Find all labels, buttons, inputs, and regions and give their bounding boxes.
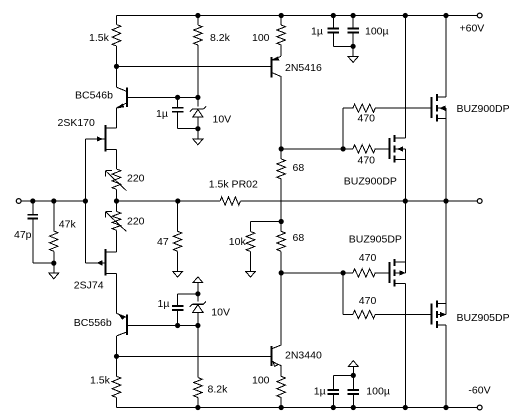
node bottom rail / 8.2k	[196, 405, 200, 409]
resistor 470 lower-2	[353, 310, 432, 318]
wire output rail left	[117, 200, 221, 202]
svg-text:100µ: 100µ	[365, 26, 389, 38]
svg-text:BUZ905DP: BUZ905DP	[457, 312, 510, 324]
svg-text:68: 68	[293, 162, 305, 174]
terminal output	[477, 199, 482, 204]
node input / gate line	[83, 199, 87, 203]
resistor 68 upper	[277, 149, 286, 201]
label 8.2k top	[210, 32, 231, 44]
resistor 8.2k bottom	[194, 326, 203, 408]
node 68 chain / 10k	[279, 219, 283, 223]
svg-text:2SJ74: 2SJ74	[74, 280, 104, 292]
resistor 1.5k top	[112, 16, 121, 67]
node output / BUZ900 source outer	[444, 199, 448, 203]
capacitor 1µ top	[328, 16, 339, 47]
wire upper rail y66	[117, 65, 272, 67]
svg-text:68: 68	[293, 232, 305, 244]
ground above zener lower	[193, 277, 203, 294]
svg-text:47k: 47k	[59, 219, 77, 231]
mosfet BUZ905DP inner	[390, 201, 406, 408]
wire 10k top link	[251, 221, 282, 223]
ground above 100µ lower	[348, 361, 358, 376]
svg-text:100: 100	[252, 375, 270, 387]
label 220 upper	[127, 173, 145, 185]
label 47	[157, 236, 169, 248]
resistor 100 bottom	[277, 376, 286, 407]
svg-text:47: 47	[157, 236, 169, 248]
wire lower rail y356	[117, 355, 272, 357]
svg-text:220: 220	[127, 173, 145, 185]
node input / 47k	[52, 199, 56, 203]
svg-text:1.5k: 1.5k	[90, 375, 111, 387]
svg-text:BUZ900DP: BUZ900DP	[457, 103, 510, 115]
label 1µ bias lower	[158, 298, 170, 310]
node VAS lower / 68	[279, 271, 283, 275]
ground below 10k	[246, 271, 256, 277]
capacitor 1µ bias upper	[172, 97, 198, 128]
node output / 47	[176, 199, 180, 203]
svg-text:100: 100	[252, 32, 270, 44]
svg-text:2N3440: 2N3440	[285, 350, 322, 362]
node bottom rail / 1µ	[331, 405, 335, 409]
resistor 1.5k PR02	[220, 197, 241, 205]
label BUZ900DP outer	[457, 103, 510, 115]
node decoupling junction lower	[351, 373, 355, 377]
label 220 lower	[127, 216, 145, 228]
label 2SK170	[58, 117, 96, 129]
wire 470 junction dropper	[343, 273, 353, 315]
resistor 10k	[246, 222, 255, 272]
label BC546b	[75, 90, 113, 102]
node input / 47p	[31, 199, 35, 203]
label 68 upper	[293, 162, 305, 174]
node base / zener	[196, 95, 200, 99]
wire BC546b base rail	[127, 96, 198, 98]
zener 10V lower	[190, 294, 206, 326]
resistor 8.2k top	[194, 16, 203, 98]
capacitor 100µ bottom	[348, 375, 359, 407]
node zener/cap junction upper	[196, 127, 200, 131]
node decoupling junction	[351, 44, 355, 48]
wire BC556b base rail	[127, 325, 198, 327]
label 2N3440	[285, 350, 322, 362]
mosfet BUZ900DP inner	[390, 16, 406, 202]
transistor BC546b	[117, 66, 127, 128]
resistor 100 top	[277, 16, 286, 57]
mosfet BUZ905DP outer	[432, 201, 446, 408]
capacitor 100µ top	[347, 16, 358, 47]
node output / BUZ900 source inner	[403, 199, 407, 203]
svg-text:1.5k PR02: 1.5k PR02	[209, 179, 258, 191]
transistor BC556b	[117, 313, 127, 356]
label BC556b	[74, 317, 112, 329]
resistor 470 upper-1	[353, 104, 432, 112]
svg-text:BUZ905DP: BUZ905DP	[349, 234, 402, 246]
node top rail / 8.2k	[196, 13, 200, 17]
svg-text:8.2k: 8.2k	[210, 32, 231, 44]
ground below 47	[173, 271, 183, 277]
label 10V lower	[211, 307, 230, 319]
label 1.5k top	[89, 32, 110, 44]
svg-text:1µ: 1µ	[314, 386, 326, 398]
label 1.5k PR02	[209, 179, 258, 191]
label 10V upper	[213, 114, 232, 126]
svg-text:470: 470	[358, 113, 376, 125]
svg-text:BUZ900DP: BUZ900DP	[344, 176, 397, 188]
label 47p	[14, 229, 32, 241]
mosfet BUZ900DP outer	[432, 16, 446, 202]
label 8.2k bottom	[208, 384, 229, 396]
label 100µ bottom	[366, 386, 390, 398]
wire input rail	[21, 200, 85, 202]
label 1µ top	[311, 26, 323, 38]
resistor 470 lower-1	[343, 269, 389, 277]
svg-text:10k: 10k	[229, 236, 247, 248]
svg-text:1µ: 1µ	[156, 108, 168, 120]
terminal -60V	[477, 405, 482, 410]
node bottom rail / 100µ	[351, 405, 355, 409]
label 47k	[59, 219, 77, 231]
svg-text:470: 470	[359, 295, 377, 307]
label 100 top	[252, 32, 270, 44]
resistor 470 upper-2	[343, 145, 389, 153]
node trimmer midpoint / output rail	[114, 199, 118, 203]
node base / 1µ	[176, 95, 180, 99]
wire trimmer chain	[116, 189, 118, 211]
node top rail / 100	[279, 13, 283, 17]
ground below 47k	[49, 263, 59, 279]
svg-text:2SK170: 2SK170	[58, 117, 96, 129]
label 68 lower	[293, 232, 305, 244]
node VAS upper / 68	[279, 147, 283, 151]
wire junction to 1µ lower	[178, 293, 198, 295]
node 1.5k / BC546b collector	[114, 64, 118, 68]
node base / zener lower	[196, 323, 200, 327]
svg-text:+60V: +60V	[460, 23, 485, 35]
transistor 2N3440	[272, 273, 282, 376]
label 470 lower-1	[359, 252, 377, 264]
capacitor 1µ bias lower	[172, 294, 183, 326]
ground below 100µ	[348, 46, 358, 62]
label -60V	[468, 384, 490, 396]
svg-text:1.5k: 1.5k	[89, 32, 110, 44]
wire 1µ to 100µ link	[333, 45, 353, 47]
label 1µ bias upper	[156, 108, 168, 120]
label 2N5416	[285, 62, 322, 74]
trimmer 220 upper	[106, 169, 127, 191]
resistor 47k	[50, 201, 59, 263]
wire VAS lower to 470 junction	[281, 272, 343, 274]
svg-text:1µ: 1µ	[311, 26, 323, 38]
svg-text:470: 470	[358, 155, 376, 167]
label 470 lower-2	[359, 295, 377, 307]
jfet 2SK170	[85, 125, 116, 201]
node 470 junction lower	[341, 271, 345, 275]
node zener/cap junction lower	[196, 292, 200, 296]
node BC556b collector / 1.5k	[114, 354, 118, 358]
wire output rail right	[241, 200, 478, 202]
wire 470 junction riser	[343, 108, 353, 149]
capacitor 1µ bottom	[328, 375, 339, 407]
zener 10V upper	[190, 97, 206, 128]
label 2SJ74	[74, 280, 104, 292]
node top rail / 1µ	[331, 13, 335, 17]
svg-text:BC546b: BC546b	[75, 90, 113, 102]
transistor 2N5416	[272, 56, 282, 149]
label BUZ905DP outer	[457, 312, 510, 324]
svg-text:2N5416: 2N5416	[285, 62, 322, 74]
svg-text:BC556b: BC556b	[74, 317, 112, 329]
svg-text:-60V: -60V	[468, 384, 490, 396]
node top rail / BUZ900DP drain	[403, 13, 407, 17]
label 1µ bottom	[314, 386, 326, 398]
label 470 upper-2	[358, 155, 376, 167]
node bottom rail / 100	[279, 405, 283, 409]
svg-text:220: 220	[127, 216, 145, 228]
label BUZ905DP inner	[349, 234, 402, 246]
svg-text:10V: 10V	[211, 307, 230, 319]
svg-text:47p: 47p	[14, 229, 32, 241]
terminal +60V	[477, 13, 482, 18]
wire -60V supply rail	[117, 407, 478, 409]
trimmer 220 lower	[106, 211, 127, 231]
svg-text:1µ: 1µ	[158, 298, 170, 310]
label 100µ top	[365, 26, 389, 38]
node base / 1µ lower	[176, 323, 180, 327]
ground below zener upper	[193, 129, 203, 145]
node top rail / 100µ	[351, 13, 355, 17]
svg-text:100µ: 100µ	[366, 386, 390, 398]
node top rail / BUZ900DP drain 2	[444, 13, 448, 17]
wire VAS to 470 junction	[281, 148, 343, 150]
resistor 1.5k bottom	[112, 356, 121, 407]
wire 1µ to 100µ link lower	[333, 374, 353, 376]
capacitor 47p	[28, 201, 54, 263]
label 470 upper-1	[358, 113, 376, 125]
label 1.5k bottom	[90, 375, 111, 387]
node 47k/47p junction	[52, 261, 56, 265]
svg-text:10V: 10V	[213, 114, 232, 126]
label +60V	[460, 23, 485, 35]
jfet 2SJ74	[85, 201, 116, 313]
label 10k	[229, 236, 247, 248]
node bottom rail / BUZ905DP drain inner	[403, 405, 407, 409]
resistor 68 lower	[277, 201, 286, 273]
label BUZ900DP inner	[344, 176, 397, 188]
wire +60V supply rail	[117, 15, 478, 17]
node bottom rail / BUZ905DP drain outer	[444, 405, 448, 409]
label 100 bottom	[252, 375, 270, 387]
svg-text:8.2k: 8.2k	[208, 384, 229, 396]
terminal input	[16, 199, 21, 204]
resistor 47	[173, 201, 182, 271]
node 470 junction upper	[341, 147, 345, 151]
svg-text:470: 470	[359, 252, 377, 264]
